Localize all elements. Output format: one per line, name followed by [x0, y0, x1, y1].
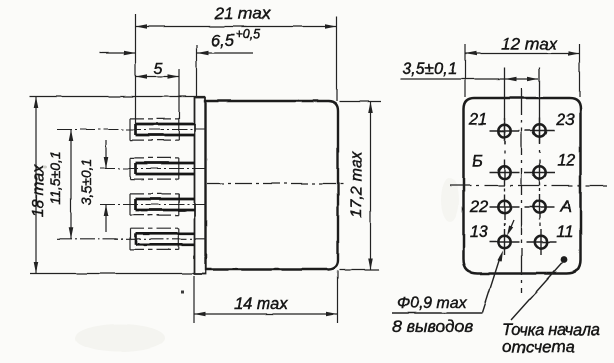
hole A: [525, 194, 555, 220]
pin P3 lead: [136, 199, 195, 210]
pin P3 outer collar: [130, 194, 179, 215]
paper speck: [181, 290, 184, 293]
hole 21: [490, 118, 520, 144]
svg-text:5: 5: [154, 61, 163, 78]
dimension 17,2 max: [339, 102, 381, 271]
dimension 14 max: [194, 271, 338, 323]
pin P4 outer collar: [130, 228, 179, 249]
pin P4 lead: [136, 233, 195, 244]
svg-text:отсчета: отсчета: [502, 338, 575, 357]
second arrow at hole 13: [510, 220, 515, 231]
body horizontal centerline: [207, 183, 345, 185]
svg-text:13: 13: [469, 223, 488, 241]
svg-text:21 max: 21 max: [214, 4, 271, 23]
pin P2 outer collar: [130, 158, 179, 179]
dimension 21 max: [136, 14, 337, 124]
vertical centerline (package): [521, 88, 523, 293]
dimension 3,5±0,1 (pins): [105, 140, 107, 169]
pin P1 outer collar: [130, 119, 179, 140]
svg-text:14 max: 14 max: [234, 295, 289, 313]
hole 11: [527, 229, 557, 255]
pin P2 centerline: [100, 168, 207, 170]
svg-text:12: 12: [557, 152, 575, 170]
hole Б: [490, 160, 520, 186]
dimension 18 max: [30, 97, 205, 274]
svg-text:18 max: 18 max: [30, 164, 47, 217]
dimension 5: [178, 69, 180, 119]
dimension 12 max: [465, 44, 580, 97]
leader diagonal to hole 13: [483, 256, 501, 313]
hole 23: [525, 118, 555, 144]
package outline (bottom view): [464, 98, 581, 274]
relay body outline: [206, 101, 339, 270]
svg-text:3,5±0,1: 3,5±0,1: [78, 159, 94, 206]
horizontal centerline (package): [450, 185, 611, 187]
svg-text:3,5±0,1: 3,5±0,1: [402, 60, 457, 78]
pin P1 centerline: [57, 129, 207, 131]
reference point dot: [561, 256, 568, 263]
svg-text:17,2 max: 17,2 max: [349, 151, 366, 218]
svg-text:11,5±0,1: 11,5±0,1: [47, 151, 63, 204]
hole 22: [490, 194, 520, 220]
svg-text:11: 11: [556, 223, 573, 241]
dimension 6,5 +0,5: [99, 45, 253, 98]
pin column centerline right: [539, 68, 542, 227]
leader to reference point: [511, 263, 563, 321]
pin P4 centerline: [57, 238, 207, 240]
svg-text:Точка начала: Точка начала: [502, 321, 600, 339]
pin column centerline left: [504, 68, 506, 227]
hole 12: [525, 160, 555, 186]
paper speck small: [43, 166, 47, 169]
faint scan smudges: [75, 324, 165, 352]
pin P2 lead: [136, 163, 195, 174]
svg-text:Б: Б: [472, 153, 483, 171]
hole 13: [490, 229, 520, 255]
svg-text:23: 23: [555, 111, 575, 129]
svg-text:21: 21: [468, 111, 487, 129]
relay mounting flange: [195, 98, 206, 275]
dimension 11,5±0,1: [70, 130, 72, 239]
svg-text:8 выводов: 8 выводов: [392, 317, 473, 336]
pin P3 centerline: [100, 204, 207, 206]
dimension 3,5±0,1 (hole columns): [400, 78, 539, 80]
svg-text:22: 22: [469, 198, 488, 216]
pin P1 lead: [136, 124, 195, 135]
leader shelf for hole size note: [392, 312, 483, 314]
svg-text:Ф0,9 max: Ф0,9 max: [397, 295, 468, 312]
svg-text:А: А: [559, 198, 571, 216]
svg-text:12 max: 12 max: [501, 35, 557, 54]
